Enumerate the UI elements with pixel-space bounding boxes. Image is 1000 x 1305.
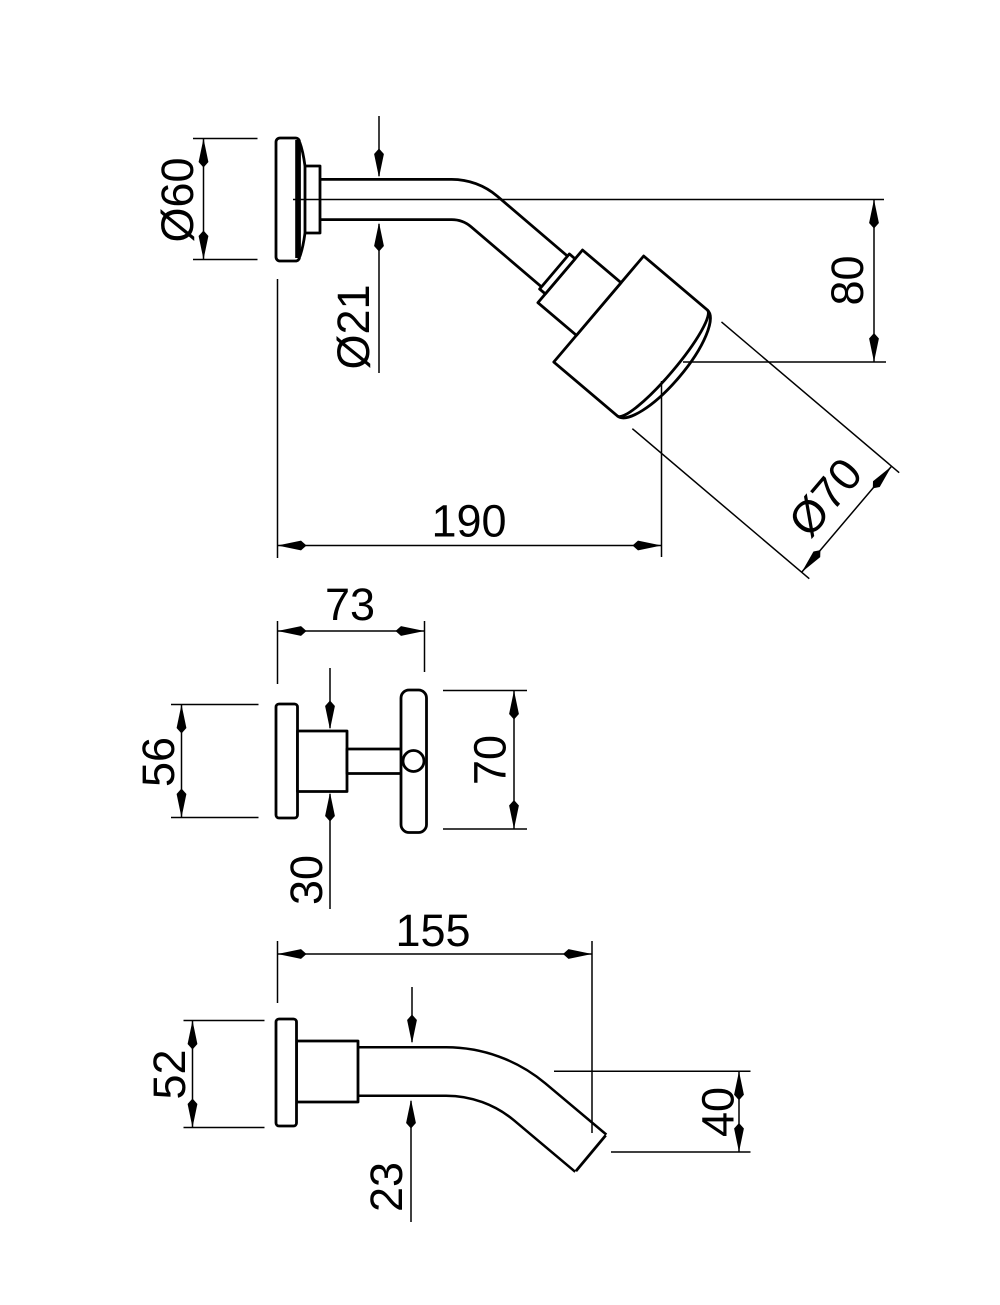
dim 80 arrow top	[869, 200, 879, 229]
dim 56 top extension line	[171, 704, 259, 706]
svg-text:80: 80	[822, 255, 873, 305]
shower arm pipe (bent tube)	[319, 199, 555, 271]
dim 73 arrow left	[278, 626, 307, 636]
svg-text:56: 56	[133, 737, 184, 787]
dim 190 dimension line	[278, 545, 662, 547]
dim 56 dimension line	[181, 705, 183, 818]
svg-text:73: 73	[325, 579, 375, 630]
dim 23 lower leader with arrow	[410, 1101, 412, 1222]
neck cylinder	[538, 250, 621, 335]
dim 73 dimension line	[278, 630, 425, 632]
handle hub circle	[403, 751, 424, 772]
dim Ø70 arrow lower	[798, 547, 823, 575]
svg-text:Ø60: Ø60	[152, 157, 203, 242]
dim 40 dimension line	[738, 1071, 740, 1152]
dim 155 left extension line	[277, 941, 279, 1003]
arm centerline	[293, 199, 884, 201]
dim 52 arrow top	[188, 1021, 198, 1050]
dim 56 bottom extension line	[171, 817, 259, 819]
dim Ø21 lower leader with arrow	[378, 224, 380, 373]
cross handle bar	[401, 690, 427, 833]
dim 40 arrow top	[734, 1071, 744, 1100]
dim 70 top extension line	[443, 690, 527, 692]
dim Ø21 upper leader with arrow	[378, 116, 380, 176]
dim 52 dimension line	[192, 1021, 194, 1128]
valve body	[298, 731, 348, 792]
dim Ø60 bottom extension line	[193, 259, 258, 261]
svg-text:40: 40	[693, 1087, 744, 1137]
shower head assembly (rotated 40.3deg)	[510, 218, 900, 578]
valve wall flange	[276, 704, 298, 818]
dim 190 right extension line	[661, 381, 663, 557]
dim 52 arrow bottom	[188, 1099, 198, 1128]
spout base block	[297, 1041, 359, 1102]
wall flange of shower arm	[276, 138, 320, 261]
dim 73 left extension line	[277, 621, 279, 684]
dim Ø70 upper extension line	[721, 322, 899, 473]
dim 190 arrow left	[278, 541, 307, 551]
dim 190 arrow right	[633, 541, 662, 551]
head body cylinder with outer face arc	[554, 256, 724, 430]
dim Ø60 top extension line	[193, 138, 258, 140]
dim Ø60 dimension line	[203, 139, 205, 260]
dim 40 top extension line	[554, 1070, 751, 1072]
dim 52 bottom extension line	[184, 1127, 265, 1129]
dim Ø60 arrow bottom	[199, 231, 209, 260]
spout tube (bent, cut end)	[358, 1071, 606, 1171]
dim 190 left extension line	[277, 279, 279, 558]
face inner rim arc	[617, 310, 717, 424]
spout wall flange	[276, 1019, 297, 1126]
dim 70 bottom extension line	[443, 828, 527, 830]
valve stem	[347, 749, 404, 774]
svg-text:190: 190	[431, 496, 506, 547]
svg-text:30: 30	[281, 855, 332, 905]
dim 155 arrow left	[278, 949, 307, 959]
dim 52 top extension line	[184, 1020, 265, 1022]
dim Ø70 dimension line	[802, 466, 892, 572]
dim Ø70 arrow upper	[869, 463, 894, 491]
dim 80 bottom extension line	[683, 361, 886, 363]
dim 73 arrow right	[396, 626, 425, 636]
dim 70 arrow bottom	[509, 800, 519, 829]
dim 73 right extension line	[424, 621, 426, 672]
dim Ø70 lower extension line	[632, 429, 809, 579]
dim 40 arrow bottom	[734, 1123, 744, 1152]
svg-text:52: 52	[144, 1049, 195, 1099]
connector ring	[540, 254, 575, 294]
svg-text:23: 23	[361, 1162, 412, 1212]
dim 80 arrow bottom	[869, 333, 879, 362]
dim 155 arrow right	[563, 949, 592, 959]
dim 30 upper leader with arrow	[329, 668, 331, 728]
dim 30 lower leader with arrow	[329, 794, 331, 909]
dim 56 arrow top	[177, 705, 187, 734]
svg-text:Ø21: Ø21	[328, 284, 379, 369]
dim 155 dimension line	[278, 953, 593, 955]
dim 23 upper leader with arrow	[411, 987, 413, 1042]
dim 40 bottom extension line	[611, 1151, 751, 1153]
svg-text:155: 155	[395, 905, 470, 956]
dim 155 right extension line	[591, 941, 593, 1133]
dim 56 arrow bottom	[177, 789, 187, 818]
dim 70 dimension line	[513, 691, 515, 830]
dim Ø60 arrow top	[199, 139, 209, 168]
svg-text:70: 70	[465, 735, 516, 785]
dim 80 dimension line	[873, 200, 875, 363]
dim 70 arrow top	[509, 691, 519, 720]
